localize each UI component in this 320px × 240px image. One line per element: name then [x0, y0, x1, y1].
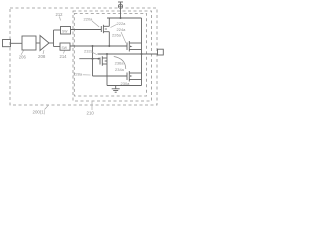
junction M1 drain on gate2 wire	[108, 45, 110, 47]
label 200 leader	[45, 105, 49, 109]
SW block bottom 214a	[60, 43, 70, 50]
junction output node	[141, 53, 143, 55]
svg-text:236a: 236a	[115, 60, 125, 65]
svg-text:SW: SW	[62, 30, 68, 34]
branch vertical wire	[53, 30, 55, 47]
label 214 leader	[64, 51, 65, 54]
wire amp to branch	[49, 42, 54, 44]
gate wire lower (to M4)	[93, 75, 128, 77]
label 220a leader	[92, 21, 99, 27]
svg-text:212: 212	[56, 12, 64, 17]
wire block to amp	[36, 42, 40, 44]
wire input to block	[11, 42, 23, 44]
label 208 leader	[43, 50, 44, 54]
label 236a leader curve	[114, 57, 126, 70]
input port 202	[3, 40, 11, 47]
M3 arrow	[104, 60, 106, 62]
SW block top 212a	[61, 27, 71, 35]
transistor M3 (left NMOS 226a)	[99, 58, 101, 65]
label 206 leader	[21, 51, 24, 55]
svg-text:210: 210	[87, 111, 95, 116]
label 212a leader	[60, 17, 61, 21]
svg-text:SW: SW	[62, 46, 68, 50]
supply terminal symbol	[118, 1, 123, 3]
inner dashed box 230	[74, 14, 146, 97]
transistor M2 (right PMOS 224a)	[126, 43, 128, 51]
svg-text:200(1): 200(1)	[33, 110, 46, 115]
M4 arrow	[130, 75, 132, 77]
label 232a leader	[92, 52, 97, 54]
outer dashed border	[10, 8, 157, 105]
svg-text:220a: 220a	[84, 17, 94, 22]
transistor M4 (right NMOS 228a)	[126, 73, 128, 81]
wire top SW to M1 gate	[71, 29, 102, 31]
svg-text:224a: 224a	[117, 27, 127, 32]
svg-text:208: 208	[38, 54, 46, 59]
ground symbol	[115, 86, 117, 89]
svg-text:226a: 226a	[112, 33, 122, 38]
output wire	[98, 53, 158, 55]
wire to bottom SW block	[54, 46, 61, 48]
right vertical bus	[141, 18, 143, 86]
middle dashed box 210	[73, 11, 152, 101]
label 224a leader	[121, 32, 126, 43]
VDD rail	[107, 17, 142, 19]
svg-text:228a: 228a	[73, 71, 83, 76]
transistor M1 (left PMOS 222a)	[100, 26, 102, 32]
label 222a leader	[111, 25, 117, 28]
M1 arrow	[104, 28, 106, 30]
junction branch	[92, 45, 94, 47]
svg-text:232a: 232a	[84, 49, 94, 54]
label 210 leader	[91, 101, 93, 110]
M3 gate wire	[79, 58, 100, 60]
svg-text:230a: 230a	[121, 81, 131, 86]
op-amp 208 triangle	[40, 36, 49, 51]
wire to top SW block	[54, 29, 61, 31]
svg-text:222a: 222a	[117, 21, 127, 26]
ground rail	[107, 85, 142, 87]
M2 arrow	[130, 46, 132, 48]
svg-text:234a: 234a	[115, 67, 125, 72]
junction supply-rail	[120, 17, 122, 19]
branch down from gate2 wire	[92, 46, 94, 76]
svg-text:206: 206	[19, 54, 27, 59]
label 228a leader	[83, 74, 91, 76]
output port 204	[158, 49, 164, 55]
wire bottom SW to M2 gate	[70, 45, 127, 47]
block 206	[22, 36, 36, 50]
svg-text:214: 214	[60, 54, 68, 59]
M3 gate junction dot	[98, 58, 100, 60]
